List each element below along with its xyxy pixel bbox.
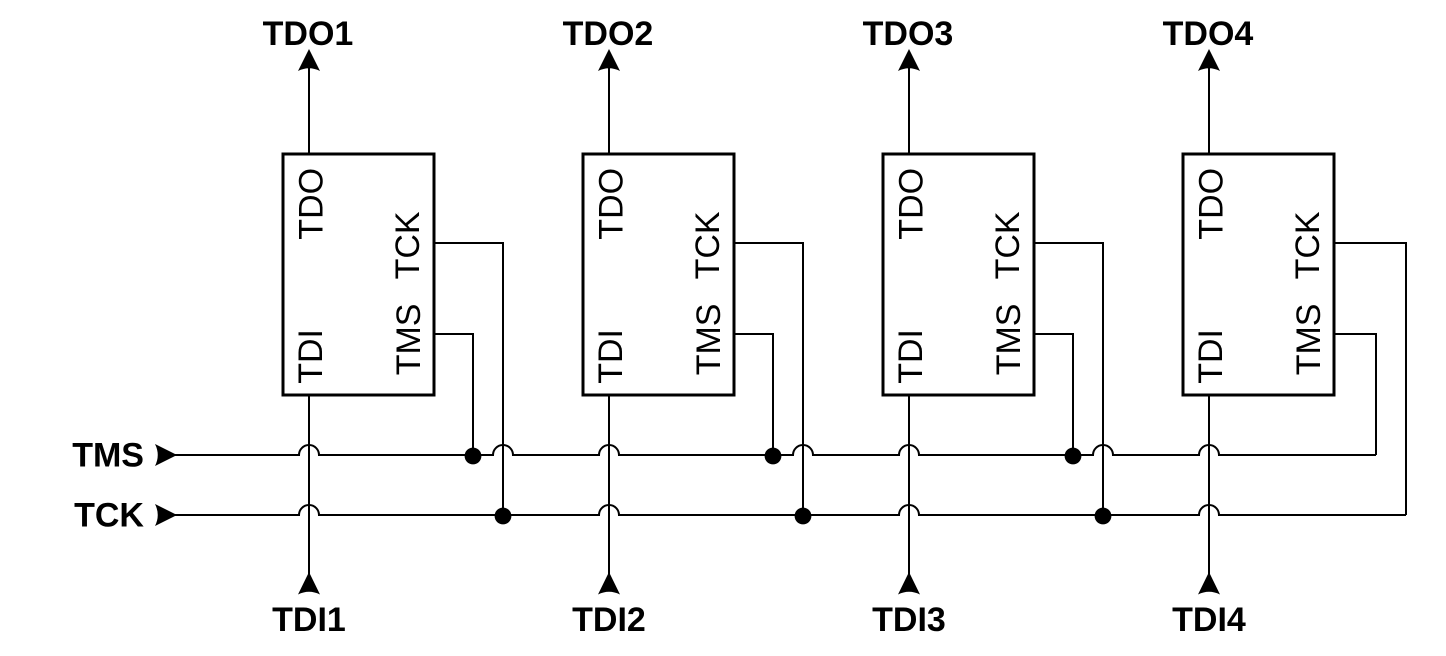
svg-text:TCK: TCK — [1289, 211, 1327, 279]
IC U1 box — [283, 154, 434, 395]
junction dot TMS/U1 — [465, 448, 482, 465]
wire TDI4 input — [1208, 395, 1210, 585]
arrowhead TDI2 — [598, 572, 620, 595]
svg-text:TCK: TCK — [389, 211, 427, 279]
wire TDO4 output — [1208, 62, 1210, 154]
svg-text:TDI: TDI — [1192, 329, 1230, 384]
svg-text:TDI: TDI — [292, 329, 330, 384]
svg-text:TCK: TCK — [989, 211, 1027, 279]
junction dot TCK/U1 — [495, 508, 512, 525]
junction dot TCK/U3 — [1095, 508, 1112, 525]
svg-text:TDI1: TDI1 — [272, 601, 346, 639]
arrowhead TMS source — [155, 444, 177, 466]
svg-text:TDO4: TDO4 — [1163, 15, 1254, 53]
svg-text:TDI3: TDI3 — [872, 601, 946, 639]
TCK bus wire with hops — [165, 505, 1406, 515]
arrowhead TDO3 — [898, 49, 920, 71]
arrowhead TDI4 — [1198, 572, 1220, 595]
junction dot TCK/U2 — [795, 508, 812, 525]
arrowhead TDI3 — [898, 572, 920, 595]
IC U4 box — [1183, 154, 1334, 395]
junction dot TMS/U3 — [1065, 448, 1082, 465]
svg-text:TDO1: TDO1 — [263, 15, 354, 53]
svg-text:TDI4: TDI4 — [1172, 601, 1246, 639]
svg-text:TDO: TDO — [893, 168, 931, 240]
svg-text:TMS: TMS — [72, 437, 144, 475]
svg-text:TCK: TCK — [74, 497, 144, 535]
svg-text:TDO3: TDO3 — [863, 15, 954, 53]
wire TDI1 input — [308, 395, 310, 585]
svg-text:TDI2: TDI2 — [572, 601, 646, 639]
wire TDI3 input — [908, 395, 910, 585]
TMS bus wire with hops — [165, 445, 1376, 455]
IC U2 box — [583, 154, 734, 395]
wire U3 TCK pin to TCK bus — [1034, 243, 1103, 515]
wire U4 TCK pin to TCK bus end — [1334, 243, 1406, 515]
svg-text:TMS: TMS — [390, 304, 428, 376]
svg-text:TDI: TDI — [592, 329, 630, 384]
svg-text:TDO: TDO — [593, 168, 631, 240]
arrowhead TDO2 — [598, 49, 620, 71]
svg-text:TDI: TDI — [892, 329, 930, 384]
wire TDO3 output — [908, 62, 910, 154]
wire U4 TMS pin to TMS bus end — [1334, 334, 1376, 455]
arrowhead TCK source — [155, 504, 177, 526]
junction dot TMS/U2 — [765, 448, 782, 465]
wire U2 TCK pin to TCK bus — [734, 243, 803, 515]
wire U1 TCK pin to TCK bus — [434, 243, 503, 515]
svg-text:TMS: TMS — [690, 304, 728, 376]
svg-text:TDO2: TDO2 — [563, 15, 654, 53]
IC U3 box — [883, 154, 1034, 395]
svg-text:TDO: TDO — [293, 168, 331, 240]
wire U1 TMS pin to TMS bus — [434, 334, 473, 455]
wire U3 TMS pin to TMS bus — [1034, 334, 1073, 455]
arrowhead TDI1 — [298, 572, 320, 595]
svg-text:TMS: TMS — [990, 304, 1028, 376]
wire U2 TMS pin to TMS bus — [734, 334, 773, 455]
wire TDI2 input — [608, 395, 610, 585]
arrowhead TDO1 — [298, 49, 320, 71]
svg-text:TMS: TMS — [1290, 304, 1328, 376]
svg-text:TCK: TCK — [689, 211, 727, 279]
wire TDO2 output — [608, 62, 610, 154]
arrowhead TDO4 — [1198, 49, 1220, 71]
svg-text:TDO: TDO — [1193, 168, 1231, 240]
wire TDO1 output — [308, 62, 310, 154]
